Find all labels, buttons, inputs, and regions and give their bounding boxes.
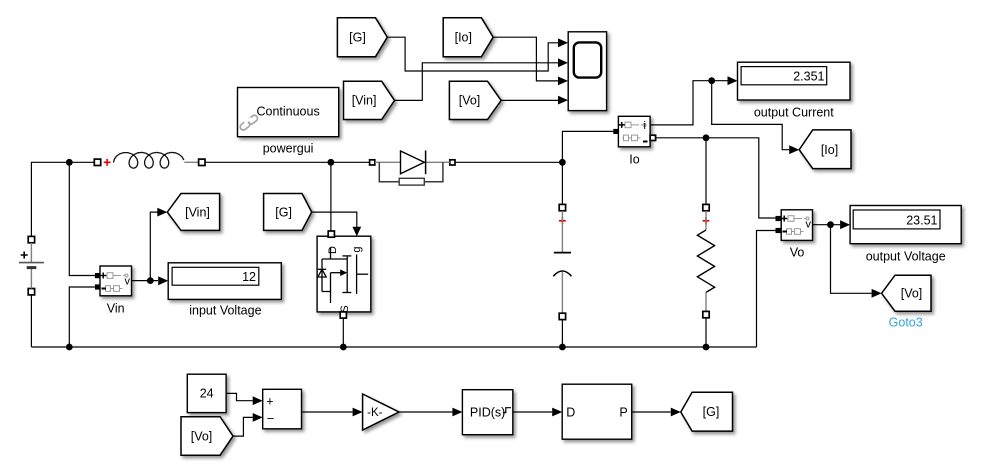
wire: Vin minus input to bottom rail — [69, 287, 95, 347]
svg-text:12: 12 — [242, 270, 256, 284]
wire: node to Goto [Io] — [712, 81, 800, 154]
node: rail-capacitor-Io junction — [559, 159, 566, 166]
svg-text:-K-: -K- — [367, 407, 383, 419]
scope block — [568, 32, 606, 111]
node: MOSFET source on bottom rail — [340, 344, 347, 351]
node: resistor on bottom rail — [703, 344, 710, 351]
svg-text:output Voltage: output Voltage — [866, 250, 946, 264]
voltage measurement block Vo — [776, 210, 813, 241]
wire: gain to PID — [399, 408, 462, 417]
wire: From [G] to Scope input 1 — [387, 37, 568, 71]
wire: top rail diode to capacitor node — [455, 161, 562, 163]
From tag [Vin] (top) — [344, 81, 395, 119]
display block output Voltage value 23.51 — [850, 206, 961, 244]
From tag [Io] (top) — [443, 18, 493, 57]
Goto tag [Io] — [799, 130, 851, 169]
svg-text:[G]: [G] — [275, 205, 292, 219]
svg-text:Io: Io — [629, 153, 639, 167]
wire: constant 24 to sum plus — [226, 393, 263, 405]
wire: sum output to gain — [302, 408, 363, 417]
node: capacitor on bottom rail — [559, 344, 566, 351]
wire: rail node to MOSFET drain port — [330, 162, 332, 231]
PWM generator block D P — [562, 384, 632, 439]
Goto tag [Vin] — [167, 194, 219, 231]
From tag [G] (gate drive) — [264, 194, 312, 231]
svg-text:24: 24 — [200, 387, 214, 401]
top rail wire: battery to inductor — [31, 162, 94, 236]
Goto tag [G] (bottom) — [681, 392, 733, 431]
svg-text:23.51: 23.51 — [906, 214, 937, 228]
svg-text:Vo: Vo — [790, 246, 805, 260]
node: rail-MOSFET drain junction — [328, 159, 335, 166]
bottom rail wire — [31, 346, 756, 348]
From tag [G] (top) — [337, 18, 387, 57]
svg-text:[G]: [G] — [349, 31, 366, 45]
svg-text:input Voltage: input Voltage — [189, 304, 261, 318]
wire: node up to Goto [Vin] — [150, 208, 167, 281]
svg-text:[Io]: [Io] — [821, 143, 838, 157]
Goto tag [Vo] Goto3 — [882, 275, 931, 311]
wire: Io through output to Vo plus, resistor node — [656, 138, 776, 218]
resistor R load — [697, 204, 714, 347]
node: resistor top junction — [703, 134, 710, 141]
svg-text:[Vo]: [Vo] — [901, 287, 923, 301]
svg-text:+: + — [266, 395, 273, 409]
wire: From [G] to MOSFET gate — [312, 212, 362, 236]
svg-text:Continuous: Continuous — [256, 105, 319, 119]
svg-text:output Current: output Current — [754, 106, 834, 120]
svg-text:[Vin]: [Vin] — [352, 94, 377, 108]
wire: From [Vin] to Scope input 2 — [395, 58, 569, 100]
svg-text:powergui: powergui — [263, 142, 314, 156]
svg-text:2.351: 2.351 — [793, 70, 824, 84]
display block input Voltage value 12 — [168, 263, 281, 300]
svg-text:g: g — [351, 246, 363, 252]
current measurement block Io — [613, 116, 655, 147]
node: rail-Vin junction — [66, 159, 73, 166]
From tag [Vo] (top) — [449, 81, 501, 119]
wire: node down to Goto3 [Vo] — [831, 225, 882, 298]
sum block — [263, 389, 302, 429]
constant block 24 — [187, 374, 226, 412]
powergui broken-link icon — [239, 114, 259, 131]
gain block -K- — [363, 394, 399, 430]
wire: battery minus to bottom rail — [30, 295, 32, 347]
svg-text:[Vin]: [Vin] — [185, 205, 210, 219]
DC voltage source battery — [19, 236, 44, 295]
svg-text:Vin: Vin — [107, 302, 125, 316]
capacitor C — [553, 162, 571, 347]
PID controller block — [462, 390, 512, 435]
svg-text:v: v — [806, 219, 812, 231]
wire: Io current output to display output Current — [650, 76, 737, 125]
From tag [Vo] (bottom) — [181, 417, 233, 456]
node: Vin minus on bottom rail — [66, 344, 73, 351]
svg-text:v: v — [125, 276, 131, 288]
svg-text:D: D — [566, 405, 575, 419]
svg-text:P: P — [619, 405, 627, 419]
svg-text:S: S — [339, 305, 351, 312]
inductor L — [94, 152, 205, 168]
wire: node down to resistor — [705, 138, 707, 205]
svg-text:[Vo]: [Vo] — [191, 429, 213, 443]
wire: rail node up to Io input — [562, 131, 613, 162]
wire: PID to PWM generator — [513, 408, 562, 417]
powergui block — [238, 88, 339, 137]
wire: rail node down to Vin plus input — [69, 162, 95, 275]
wire: Vin output to display, node — [132, 276, 169, 285]
wire: From [Vo] to Scope input 4 — [501, 96, 568, 105]
svg-text:−: − — [267, 411, 275, 426]
wire: PWM to Goto [G] — [632, 408, 681, 417]
wire: From [Vo] to sum minus — [233, 413, 263, 436]
MOSFET block Q — [317, 231, 371, 318]
svg-text:PID(s): PID(s) — [470, 405, 505, 419]
svg-text:[Io]: [Io] — [455, 31, 472, 45]
display block output Current value 2.351 — [738, 62, 851, 100]
svg-text:[G]: [G] — [703, 405, 720, 419]
wire: bottom rail up to Vo minus — [757, 231, 776, 348]
svg-text:D: D — [327, 246, 339, 254]
diode D with RC snubber — [370, 151, 455, 186]
wire: From [Io] to Scope input 3 — [493, 37, 568, 85]
wire: Vo output to display output Voltage — [813, 220, 851, 229]
voltage measurement block Vin — [95, 266, 132, 296]
svg-text:[Vo]: [Vo] — [459, 94, 481, 108]
svg-text:i: i — [644, 120, 646, 132]
svg-text:Goto3: Goto3 — [889, 316, 923, 330]
wire: top rail inductor to diode, node to MOSFET drain — [205, 161, 370, 163]
wire: MOSFET source to bottom rail — [342, 318, 344, 347]
